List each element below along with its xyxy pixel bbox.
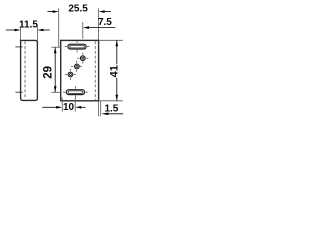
dimension 41 line with arrows: [116, 40, 118, 100]
bottom slot centerline horizontal: [63, 91, 66, 93]
svg-text:11.5: 11.5: [19, 19, 38, 30]
dimension 1.5 second ext line: [100, 101, 102, 117]
top slot outer: [68, 44, 86, 49]
dimension 10 left ext line: [61, 98, 63, 112]
top slot centerline horizontal: [65, 46, 68, 48]
dimension 10 right arrow: [81, 106, 86, 108]
dimension 1.5 arrow: [107, 113, 123, 115]
dimension 10 left arrow: [42, 106, 57, 108]
hole 2: [75, 64, 80, 69]
hidden dashed line in side view: [24, 41, 26, 98]
svg-text:10: 10: [63, 102, 75, 113]
svg-text:7.5: 7.5: [98, 17, 112, 28]
hole 3: [68, 72, 73, 77]
dimension 25.5 left arrow: [47, 11, 53, 13]
dimension 25.5 left ext line: [58, 8, 60, 47]
bottom slot centerline vertical ticks: [74, 86, 76, 89]
dimension 11.5 right arrow: [43, 29, 50, 31]
dimension 29 bottom ext line: [51, 91, 60, 93]
dimension 41 bottom ext line: [99, 100, 123, 102]
svg-text:29: 29: [42, 66, 54, 79]
dimension 41 top ext line: [99, 39, 123, 41]
hole center tick lower (side view): [15, 91, 22, 93]
dimension 1.5 ext line (plate edge extended): [98, 101, 100, 117]
top slot inner: [70, 45, 85, 48]
side view extension line left: [20, 27, 22, 41]
bottom slot outer: [66, 90, 84, 95]
side view extension line right: [36, 27, 38, 41]
plate outline: [61, 40, 99, 100]
dimension 11.5 left arrow: [6, 29, 15, 31]
hidden dashed line near right edge: [94, 41, 96, 100]
dimension 25.5 right ext line (up from plate corner): [98, 8, 100, 40]
dimension 7.5 ext line: [82, 22, 84, 39]
bottom slot inner: [68, 91, 83, 94]
svg-text:25.5: 25.5: [68, 4, 88, 15]
svg-text:41: 41: [108, 65, 120, 77]
dimension 29 line with arrows: [54, 47, 56, 92]
hole 1: [80, 56, 85, 61]
dimension 7.5 arrow/line: [89, 27, 116, 29]
dimension 10 right ext line: [74, 98, 76, 112]
dimension 25.5 right arrow: [104, 11, 111, 13]
side view body outline: [21, 40, 38, 100]
top slot centerline vertical ticks: [76, 41, 78, 43]
dimension 29 top ext line: [51, 46, 60, 48]
hole center tick upper (side view): [15, 46, 22, 48]
